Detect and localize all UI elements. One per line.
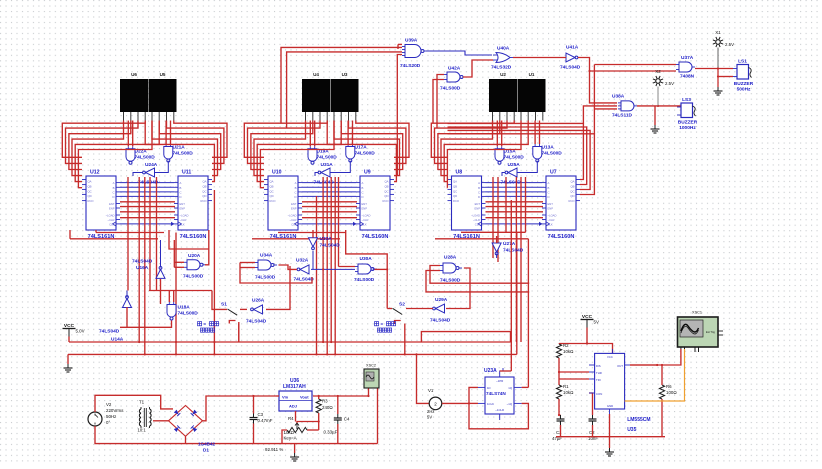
svg-text:RCO: RCO [88, 199, 94, 203]
svg-text:QC: QC [453, 189, 457, 193]
svg-text:U27A: U27A [503, 241, 516, 247]
svg-text:QA: QA [202, 180, 206, 184]
svg-text:ENP: ENP [362, 207, 368, 211]
svg-text:U1: U1 [529, 72, 535, 77]
svg-text:U3: U3 [342, 72, 348, 77]
svg-text:U4: U4 [313, 72, 319, 77]
svg-text:74LS04D: 74LS04D [246, 319, 267, 325]
svg-text:R1: R1 [563, 384, 569, 389]
svg-text:50Hz: 50Hz [106, 414, 116, 419]
svg-text:U7: U7 [550, 170, 557, 176]
svg-text:QC: QC [384, 189, 388, 193]
svg-text:74LS00D: 74LS00D [542, 150, 563, 156]
svg-text:RCO: RCO [201, 199, 207, 203]
svg-text:U30A: U30A [360, 256, 373, 262]
svg-text:U40A: U40A [497, 46, 510, 52]
svg-text:U34A: U34A [260, 253, 273, 259]
svg-text:U10: U10 [272, 170, 282, 176]
svg-text:ENP: ENP [180, 207, 186, 211]
svg-text:QB: QB [570, 184, 574, 188]
svg-text:QA: QA [570, 180, 574, 184]
svg-text:100Ω: 100Ω [666, 390, 677, 395]
svg-text:Vin: Vin [282, 395, 289, 400]
svg-text:B: B [295, 186, 297, 190]
svg-text:~LOAD: ~LOAD [180, 214, 189, 218]
svg-text:Vout: Vout [300, 395, 309, 400]
svg-text:VCC: VCC [607, 355, 613, 359]
svg-text:74LS160N: 74LS160N [362, 234, 389, 240]
svg-text:~CLR: ~CLR [473, 218, 480, 222]
svg-text:D1: D1 [203, 448, 209, 453]
svg-text:U35: U35 [627, 427, 636, 433]
svg-text:LM555CM: LM555CM [627, 417, 650, 423]
svg-text:QD: QD [453, 194, 457, 198]
svg-text:500Hz: 500Hz [737, 87, 751, 93]
svg-text:QD: QD [570, 194, 574, 198]
svg-text:1G4B42: 1G4B42 [198, 442, 216, 447]
svg-text:~LOAD: ~LOAD [548, 214, 557, 218]
svg-text:2.5V: 2.5V [725, 42, 734, 47]
svg-text:74LS00D: 74LS00D [135, 154, 156, 160]
svg-text:LM317AH: LM317AH [283, 384, 306, 390]
svg-text:10kΩ: 10kΩ [563, 390, 574, 395]
svg-text:74LS00D: 74LS00D [183, 274, 204, 280]
svg-text:QD: QD [384, 194, 388, 198]
svg-text:OUT: OUT [617, 364, 623, 368]
svg-text:ENT: ENT [475, 202, 481, 206]
svg-text:74LS04D: 74LS04D [99, 329, 120, 335]
svg-text:2Hz: 2Hz [427, 409, 434, 414]
svg-text:U29A: U29A [435, 297, 448, 303]
svg-text:C: C [180, 190, 182, 194]
svg-text:U12: U12 [90, 170, 100, 176]
svg-text:D: D [478, 195, 480, 199]
svg-text:C: C [362, 190, 364, 194]
svg-text:220Vrms: 220Vrms [106, 408, 124, 413]
svg-text:~1CLR: ~1CLR [495, 408, 504, 412]
svg-text:ENP: ENP [109, 207, 115, 211]
svg-text:D: D [112, 195, 114, 199]
svg-text:U36: U36 [290, 378, 299, 384]
svg-text:74LS00D: 74LS00D [317, 154, 338, 160]
svg-text:~1Q: ~1Q [507, 402, 513, 406]
svg-text:~1PR: ~1PR [496, 379, 503, 383]
svg-text:U25A: U25A [508, 162, 521, 168]
svg-text:74LS04D: 74LS04D [294, 277, 315, 283]
svg-text:U16A: U16A [136, 265, 149, 271]
svg-text:QC: QC [570, 189, 574, 193]
svg-text:7408N: 7408N [680, 74, 695, 80]
svg-text:74LS04D: 74LS04D [132, 259, 153, 265]
svg-text:U6: U6 [131, 72, 137, 77]
svg-text:U23A: U23A [484, 368, 497, 374]
svg-text:TRI: TRI [596, 378, 601, 382]
svg-text:10kΩ: 10kΩ [563, 349, 574, 354]
svg-text:74LS00D: 74LS00D [504, 154, 525, 160]
svg-text:ENP: ENP [474, 207, 480, 211]
svg-text:5.0V: 5.0V [76, 329, 85, 334]
svg-text:~CLR: ~CLR [108, 218, 115, 222]
svg-text:=: = [204, 321, 207, 326]
svg-text:X2: X2 [655, 69, 661, 74]
svg-text:U32A: U32A [296, 258, 309, 264]
svg-text:74LS04D: 74LS04D [320, 243, 341, 249]
svg-text:A: A [548, 181, 550, 185]
svg-text:=: = [381, 321, 384, 326]
svg-text:U8: U8 [456, 170, 463, 176]
svg-text:1CLK: 1CLK [487, 402, 494, 406]
svg-text:U41A: U41A [566, 45, 579, 51]
svg-text:74LS04D: 74LS04D [430, 318, 451, 324]
svg-text:S2: S2 [399, 302, 405, 308]
svg-text:74LS74N: 74LS74N [486, 391, 506, 396]
svg-text:A: A [362, 181, 364, 185]
svg-text:0.47mF: 0.47mF [258, 418, 273, 423]
svg-text:B: B [180, 186, 182, 190]
svg-text:U18A: U18A [178, 305, 191, 311]
svg-text:QD: QD [88, 194, 92, 198]
svg-text:U9: U9 [364, 170, 371, 176]
svg-text:10:1: 10:1 [138, 428, 147, 433]
svg-text:ENT: ENT [291, 202, 297, 206]
svg-text:Key=A: Key=A [284, 436, 297, 441]
svg-text:D: D [180, 195, 182, 199]
svg-text:1000Hz: 1000Hz [679, 125, 696, 131]
svg-text:LS3: LS3 [682, 97, 691, 103]
svg-text:QA: QA [270, 180, 274, 184]
svg-text:ENT: ENT [548, 202, 554, 206]
svg-text:GND: GND [607, 404, 613, 408]
svg-text:74LS04D: 74LS04D [503, 248, 524, 254]
svg-text:U2: U2 [500, 72, 506, 77]
svg-text:QB: QB [88, 184, 92, 188]
svg-text:74LS160N: 74LS160N [180, 234, 207, 240]
svg-text:U11: U11 [182, 170, 191, 176]
svg-text:RCO: RCO [453, 199, 459, 203]
svg-text:C: C [294, 190, 296, 194]
svg-text:ENT: ENT [362, 202, 368, 206]
svg-text:74LS00D: 74LS00D [354, 277, 375, 283]
svg-text:CLK: CLK [362, 222, 367, 226]
svg-text:BUZZER: BUZZER [678, 120, 698, 126]
svg-text:ENT: ENT [180, 202, 186, 206]
svg-text:QB: QB [453, 184, 457, 188]
svg-text:C: C [478, 190, 480, 194]
svg-text:RCO: RCO [270, 199, 276, 203]
svg-text:10kΩ: 10kΩ [284, 430, 295, 435]
svg-text:XSC2: XSC2 [366, 364, 376, 368]
svg-text:74LS00D: 74LS00D [178, 311, 199, 317]
svg-text:74LS00D: 74LS00D [440, 86, 461, 92]
svg-text:BUZZER: BUZZER [734, 81, 754, 87]
svg-text:CLK: CLK [180, 222, 185, 226]
svg-text:QB: QB [384, 184, 388, 188]
svg-text:DIS: DIS [596, 364, 601, 368]
svg-text:~CLR: ~CLR [548, 218, 555, 222]
svg-text:V2: V2 [106, 402, 112, 407]
svg-text:V1: V1 [428, 388, 434, 393]
svg-text:CLK: CLK [109, 222, 114, 226]
svg-text:ADJ: ADJ [289, 404, 297, 409]
svg-text:U24A: U24A [145, 162, 158, 168]
svg-text:U33A: U33A [320, 236, 333, 242]
svg-text:B: B [362, 186, 364, 190]
svg-text:R2: R2 [563, 343, 569, 348]
svg-text:QC: QC [88, 189, 92, 193]
svg-text:XSC1: XSC1 [692, 311, 702, 315]
svg-text:0.33µF: 0.33µF [324, 430, 338, 435]
svg-text:C: C [112, 190, 114, 194]
svg-text:74LS32D: 74LS32D [491, 65, 512, 71]
svg-text:X1: X1 [715, 30, 721, 35]
svg-text:U38A: U38A [612, 94, 625, 100]
svg-text:QB: QB [202, 184, 206, 188]
svg-text:RCO: RCO [383, 199, 389, 203]
svg-text:92.911 %: 92.911 % [265, 447, 283, 452]
svg-text:74LS160N: 74LS160N [548, 234, 575, 240]
svg-text:THR: THR [596, 371, 602, 375]
svg-text:ENP: ENP [548, 207, 554, 211]
svg-text:240Ω: 240Ω [322, 405, 333, 410]
svg-text:A: A [478, 181, 480, 185]
svg-text:U31A: U31A [321, 162, 334, 168]
svg-text:U37A: U37A [681, 55, 694, 61]
svg-text:RCO: RCO [569, 199, 575, 203]
svg-text:0°: 0° [106, 420, 110, 425]
svg-text:U28A: U28A [444, 255, 457, 261]
svg-text:D: D [362, 195, 364, 199]
svg-text:5V: 5V [427, 415, 432, 420]
svg-text:U42A: U42A [448, 66, 461, 72]
svg-text:B: B [478, 186, 480, 190]
svg-text:U5: U5 [160, 72, 166, 77]
svg-text:C: C [548, 190, 550, 194]
svg-text:T1: T1 [139, 400, 145, 405]
svg-text:CLK: CLK [548, 222, 553, 226]
svg-text:ENP: ENP [291, 207, 297, 211]
svg-text:~CLR: ~CLR [290, 218, 297, 222]
svg-text:~LOAD: ~LOAD [362, 214, 371, 218]
svg-text:~CLR: ~CLR [362, 218, 369, 222]
svg-text:~CLR: ~CLR [180, 218, 187, 222]
svg-text:B: B [113, 186, 115, 190]
svg-text:D: D [294, 195, 296, 199]
svg-text:R3: R3 [322, 399, 328, 404]
svg-text:C3: C3 [258, 412, 264, 417]
svg-text:C4: C4 [344, 417, 350, 422]
svg-text:2.5V: 2.5V [665, 81, 674, 86]
svg-text:1D: 1D [487, 386, 491, 390]
svg-text:74LS00D: 74LS00D [255, 275, 276, 281]
svg-text:74LS20D: 74LS20D [400, 63, 421, 69]
svg-text:U17A: U17A [355, 145, 368, 151]
svg-text:CLK: CLK [475, 222, 480, 226]
svg-text:~LOAD: ~LOAD [471, 214, 480, 218]
svg-text:QD: QD [202, 194, 206, 198]
svg-text:QC: QC [270, 189, 274, 193]
svg-text:74LS11D: 74LS11D [612, 113, 633, 119]
svg-text:B: B [548, 186, 550, 190]
svg-text:~LOAD: ~LOAD [288, 214, 297, 218]
svg-text:D: D [548, 195, 550, 199]
svg-text:QA: QA [88, 180, 92, 184]
svg-text:U21A: U21A [173, 145, 186, 151]
svg-text:74LS00D: 74LS00D [355, 150, 376, 156]
svg-text:U20A: U20A [188, 253, 201, 259]
svg-text:A: A [180, 181, 182, 185]
svg-text:74LS00D: 74LS00D [173, 150, 194, 156]
svg-text:QD: QD [270, 194, 274, 198]
svg-text:~LOAD: ~LOAD [106, 214, 115, 218]
svg-text:R4: R4 [288, 416, 294, 421]
svg-text:LS1: LS1 [738, 59, 747, 65]
svg-text:QB: QB [270, 184, 274, 188]
svg-text:74LS04D: 74LS04D [560, 65, 581, 71]
svg-text:U13A: U13A [542, 145, 555, 151]
svg-text:CLK: CLK [291, 222, 296, 226]
svg-text:R6: R6 [666, 384, 672, 389]
svg-text:5V: 5V [594, 320, 599, 325]
svg-text:S1: S1 [221, 302, 227, 308]
svg-text:QA: QA [453, 180, 457, 184]
svg-text:A: A [295, 181, 297, 185]
svg-text:QC: QC [202, 189, 206, 193]
svg-text:QA: QA [384, 180, 388, 184]
svg-text:Ext Trig: Ext Trig [706, 330, 715, 334]
svg-text:C1: C1 [556, 430, 562, 435]
svg-text:U39A: U39A [405, 38, 418, 44]
svg-text:CON: CON [596, 392, 602, 396]
svg-text:ENT: ENT [109, 202, 115, 206]
svg-text:U26A: U26A [252, 298, 265, 304]
svg-text:A: A [113, 181, 115, 185]
